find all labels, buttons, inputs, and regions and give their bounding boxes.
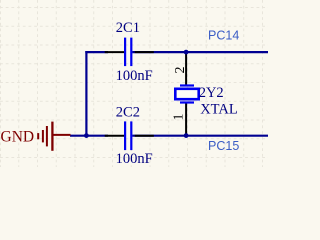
svg-text:XTAL: XTAL bbox=[200, 101, 238, 117]
capacitor C2 pin 1 bbox=[105, 135, 124, 137]
wire bottom horizontal, GND to C2 bbox=[70, 135, 108, 137]
svg-text:PC14: PC14 bbox=[208, 29, 239, 43]
capacitor C2 pin 2 bbox=[135, 135, 154, 137]
capacitor C1 plates bbox=[125, 38, 131, 67]
capacitor C1 pin 1 bbox=[105, 51, 124, 53]
wire bottom horizontal, C2 to PC15 bbox=[132, 135, 268, 137]
crystal Y2 pin 2 (top) bbox=[185, 52, 187, 84]
capacitor C1 pin 2 bbox=[135, 51, 154, 53]
junction at crystal top bbox=[184, 50, 189, 55]
svg-text:2C1: 2C1 bbox=[116, 20, 140, 36]
svg-text:2Y2: 2Y2 bbox=[199, 85, 224, 101]
svg-text:PC15: PC15 bbox=[208, 139, 239, 153]
ground power port GND bbox=[38, 122, 70, 151]
wire top horizontal, left of C1 bbox=[85, 51, 108, 53]
wire top horizontal, C1 to PC14 bbox=[132, 51, 268, 53]
svg-text:2: 2 bbox=[173, 67, 188, 74]
svg-text:100nF: 100nF bbox=[116, 68, 153, 84]
junction at GND net bbox=[84, 133, 89, 138]
svg-text:100nF: 100nF bbox=[116, 151, 153, 167]
svg-text:1: 1 bbox=[172, 114, 187, 121]
junction at crystal bottom bbox=[184, 133, 189, 138]
crystal Y2 body bbox=[175, 86, 198, 103]
wire left vertical bbox=[85, 51, 87, 136]
svg-text:GND: GND bbox=[1, 129, 35, 146]
crystal Y2 pin 1 (bottom) bbox=[185, 104, 187, 136]
svg-text:2C2: 2C2 bbox=[116, 105, 140, 121]
capacitor C2 plates bbox=[125, 121, 131, 150]
